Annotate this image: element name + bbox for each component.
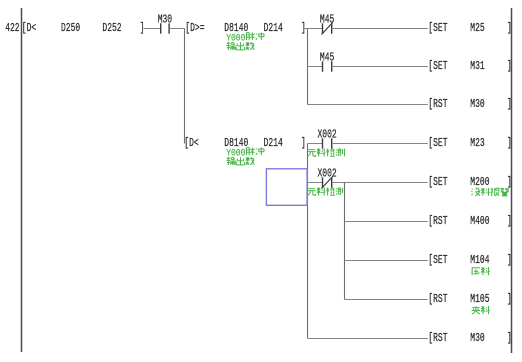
wire (308, 338, 428, 340)
svg-text:M104: M104 (470, 254, 489, 267)
svg-text:M105: M105 (470, 293, 489, 306)
edit cursor cell (blue rectangle) (266, 169, 307, 206)
svg-text:M30: M30 (158, 13, 172, 26)
svg-text:]: ] (507, 215, 512, 228)
wire (308, 104, 428, 106)
svg-text:[RST: [RST (428, 293, 447, 306)
svg-text:[SET: [SET (428, 254, 447, 267)
svg-text:[RST: [RST (428, 98, 447, 111)
wire (332, 182, 428, 184)
svg-text:M45: M45 (320, 51, 334, 64)
wire (308, 28, 323, 30)
svg-text:M25: M25 (470, 22, 484, 35)
svg-text:Y000: Y000 (226, 147, 245, 159)
svg-text:[RST: [RST (428, 332, 447, 345)
svg-text:M30: M30 (470, 98, 484, 111)
wire (332, 66, 428, 68)
comment 无料检测 for X002 (307, 189, 315, 196)
svg-text:X002: X002 (318, 128, 337, 141)
comment 夹料 for M105 (472, 306, 481, 314)
svg-text:422: 422 (5, 22, 19, 35)
comment 没料报警 for M200 (471, 188, 480, 196)
wire (332, 28, 428, 30)
svg-text:Y000: Y000 (226, 32, 245, 44)
svg-text:[SET: [SET (428, 22, 447, 35)
svg-text:]: ] (507, 176, 512, 189)
svg-text:[RST: [RST (428, 215, 447, 228)
svg-text:[D>=: [D>= (185, 22, 204, 35)
wire (345, 299, 428, 301)
wire (304, 28, 308, 30)
contact M45 normally open (322, 61, 324, 71)
contact X002 normally open (322, 138, 324, 148)
svg-text:]: ] (507, 254, 512, 267)
svg-text:D214: D214 (264, 22, 283, 35)
svg-text:M31: M31 (470, 60, 484, 73)
svg-text:[SET: [SET (428, 137, 447, 150)
svg-text:D250: D250 (61, 22, 80, 35)
svg-text:[D<: [D< (22, 22, 36, 35)
svg-text:]: ] (507, 22, 512, 35)
comment 无料检测 for X002 (307, 150, 315, 157)
contact M30 (160, 23, 162, 33)
contact X002 normally closed (322, 177, 324, 187)
svg-text:D214: D214 (264, 137, 283, 150)
svg-text:X002: X002 (318, 167, 337, 180)
wire branch vertical to second compare rung (184, 29, 186, 144)
wire (345, 221, 428, 223)
svg-text:[D<: [D< (184, 137, 198, 150)
svg-text:M30: M30 (470, 332, 484, 345)
wire (169, 28, 184, 30)
contact M45 normally closed (322, 23, 324, 33)
svg-text:[SET: [SET (428, 176, 447, 189)
svg-text:M400: M400 (470, 215, 489, 228)
node branch vertical rows 4-9 (307, 144, 309, 339)
svg-text:]: ] (507, 60, 512, 73)
svg-text:D252: D252 (102, 22, 121, 35)
svg-text:M200: M200 (470, 176, 489, 189)
svg-text:]: ] (507, 98, 512, 111)
svg-text:M45: M45 (320, 13, 334, 26)
wire (308, 182, 323, 184)
svg-text:M23: M23 (470, 137, 484, 150)
wire (308, 66, 323, 68)
left power rail (21, 8, 23, 352)
svg-text:]: ] (507, 293, 512, 306)
svg-text:]: ] (301, 137, 306, 150)
svg-text:]: ] (507, 137, 512, 150)
wire (345, 260, 428, 262)
wire (332, 143, 428, 145)
svg-text:[SET: [SET (428, 60, 447, 73)
node branch vertical rows 1-3 (307, 29, 309, 105)
svg-text:]: ] (507, 332, 512, 345)
node branch vertical rows 5-8 (344, 183, 346, 300)
wire (144, 28, 161, 30)
comment 压料 for M104 (472, 268, 480, 275)
wire (308, 143, 323, 145)
right power rail (511, 8, 513, 353)
